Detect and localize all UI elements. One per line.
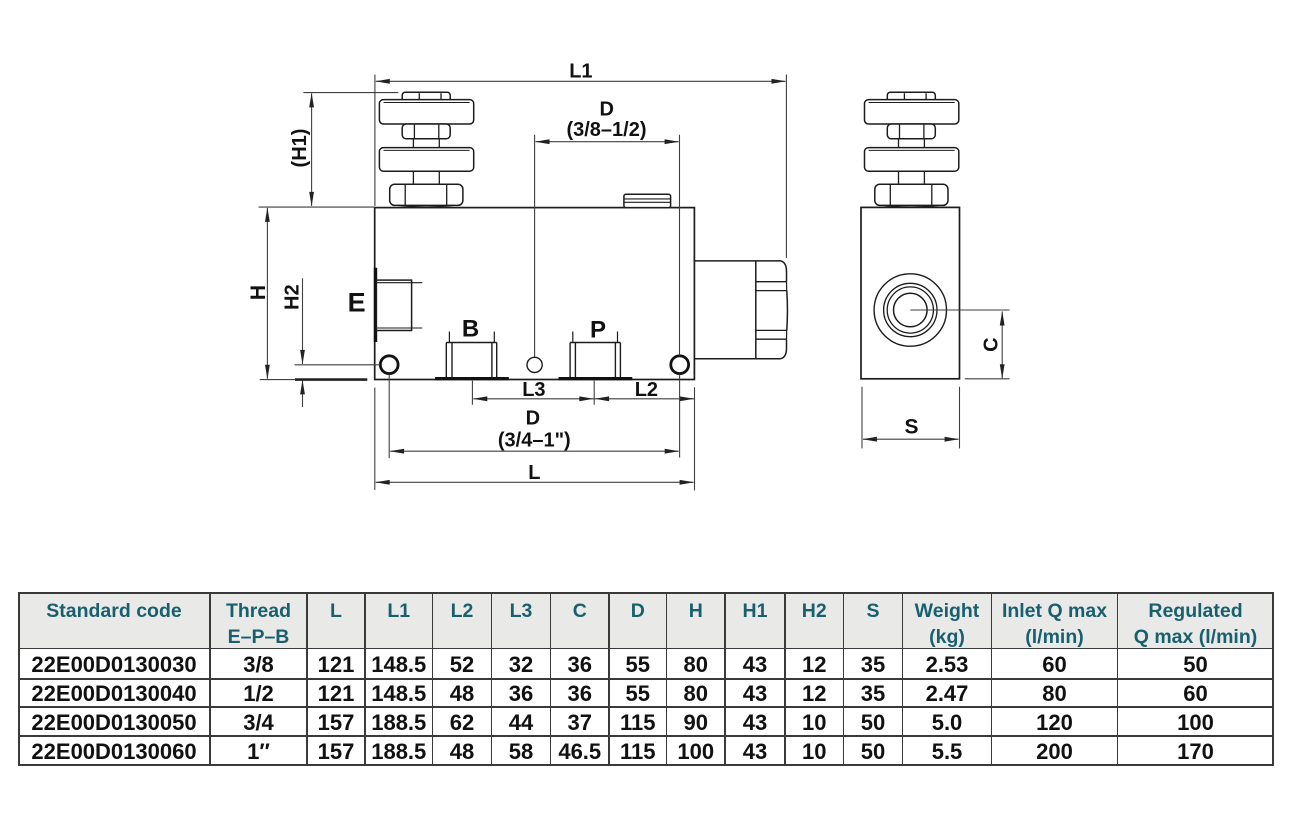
dimension D (3/8-1/2): [535, 135, 680, 358]
svg-text:E: E: [348, 287, 366, 317]
center hole: [527, 357, 542, 372]
svg-text:S: S: [904, 416, 918, 439]
svg-text:L1: L1: [569, 61, 592, 83]
valve body (side view): [861, 207, 960, 378]
dimension H: [259, 206, 375, 208]
top plug: [624, 194, 671, 207]
dimension S: [862, 387, 960, 449]
port E mouth: [374, 268, 377, 342]
side bottom extension: [965, 378, 1010, 380]
svg-text:H: H: [247, 285, 270, 300]
port B flange: [435, 377, 509, 380]
svg-text:D: D: [526, 407, 540, 429]
svg-text:(3/8–1/2): (3/8–1/2): [566, 119, 646, 141]
dimension L3 / L2: [472, 381, 694, 405]
adjusting knob (side view): [865, 92, 959, 207]
port P boss: [570, 332, 620, 378]
mounting hole right: [671, 356, 689, 374]
dimension D (3/4-1"): [390, 450, 678, 452]
lower extension lines: [375, 374, 695, 490]
port P flange: [559, 377, 633, 380]
dimension H1: [304, 92, 399, 94]
dimension L: [376, 481, 694, 483]
port E boss: [376, 280, 411, 330]
svg-text:H2: H2: [282, 284, 304, 310]
svg-text:C: C: [980, 337, 1002, 351]
svg-text:(3/4–1"): (3/4–1"): [498, 430, 571, 452]
bottom extension line: [260, 379, 295, 381]
svg-text:L3: L3: [522, 379, 545, 401]
svg-text:P: P: [590, 316, 606, 343]
side centerline: [910, 309, 1009, 311]
svg-text:L: L: [528, 462, 540, 484]
svg-text:L2: L2: [635, 379, 658, 401]
valve main body (front view): [375, 208, 695, 380]
svg-text:D: D: [599, 98, 613, 120]
outlet hex adapter (right side): [694, 261, 787, 359]
dimension H2: [302, 278, 304, 364]
dimension L1: [375, 75, 787, 258]
svg-text:B: B: [462, 316, 479, 343]
hole centerline: [295, 364, 381, 366]
adjusting knob (front view): [379, 92, 473, 207]
dimension C: [1001, 312, 1003, 379]
mounting hole left: [380, 356, 398, 374]
svg-text:(H1): (H1): [289, 129, 311, 168]
port B boss: [446, 332, 496, 378]
outlet port circles: [874, 274, 946, 346]
